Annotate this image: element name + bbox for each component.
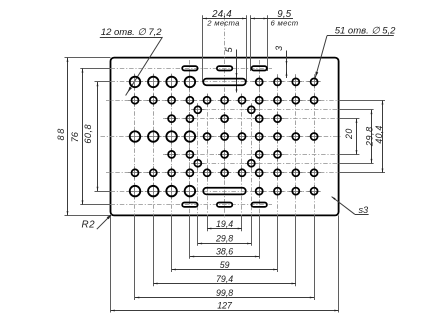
- extension row2.5 right: [339, 109, 374, 111]
- extension left edge down: [110, 215, 112, 312]
- svg-text:20: 20: [344, 128, 354, 140]
- extension row3 right: [339, 118, 360, 120]
- centerline row2: [106, 100, 339, 102]
- hole d5.2 r7c8: [253, 185, 266, 198]
- hole d5.2 r2c6: [218, 94, 231, 107]
- hole d5.2 r4c9: [271, 130, 284, 143]
- hole d7.2 r7c1: [127, 183, 144, 200]
- dim 9,5 line: [251, 18, 293, 20]
- short slot 9.5x3 bottom c8: [252, 203, 267, 207]
- hole d7.2 r7c2: [145, 183, 162, 200]
- centerline bottom slot row: [111, 204, 273, 206]
- extension col c10 below: [295, 215, 297, 286]
- hole d5.2 r6c9: [271, 166, 284, 179]
- dim 79,4 line: [153, 283, 295, 285]
- svg-text:29,8: 29,8: [364, 126, 374, 147]
- svg-text:59: 59: [220, 260, 230, 270]
- hole d5.2 r7c10: [289, 185, 302, 198]
- label 12 holes leader: [126, 37, 163, 96]
- dim 127 line: [111, 310, 339, 312]
- svg-text:60,8: 60,8: [83, 124, 93, 144]
- hole d5.2 r3c3: [165, 112, 178, 125]
- hole d5.2 r1c8: [253, 75, 266, 88]
- hole d5.2 r2c3: [165, 94, 178, 107]
- hole d5.2 r1c11: [308, 75, 321, 88]
- extension bottom slot row left: [80, 204, 110, 206]
- plate outline 127x88 R2: [111, 58, 339, 216]
- hole d5.2 r2.5 left: [191, 103, 204, 116]
- extension col c5 below: [207, 215, 209, 231]
- hole d5.2 r5c4: [183, 148, 196, 161]
- svg-text:40,4: 40,4: [374, 125, 384, 143]
- hole d5.2 r7c11: [308, 185, 321, 198]
- hole d7.2 r1c2: [145, 74, 162, 91]
- svg-text:76: 76: [70, 131, 80, 142]
- dim 99,8 line: [135, 297, 314, 299]
- hole d5.2 r5.5 right: [245, 157, 258, 170]
- hole d5.2 r6c10: [289, 166, 302, 179]
- centerline column c2: [153, 74, 155, 215]
- centerline column c8: [259, 60, 261, 215]
- dim 88 line: [67, 58, 69, 216]
- hole d7.2 r1c3: [163, 74, 180, 91]
- hole d5.2 r6c2: [147, 166, 160, 179]
- svg-text:99,8: 99,8: [216, 288, 233, 298]
- hole d5.2 r2c11: [308, 94, 321, 107]
- extension row5 right: [339, 154, 360, 156]
- hole d5.2 r3c4: [183, 112, 196, 125]
- hole d5.2 r6c8: [253, 166, 266, 179]
- hole d5.2 r6c1: [128, 166, 141, 179]
- hole d7.2 r4c4: [182, 128, 199, 145]
- extension col c2 below: [153, 215, 155, 286]
- svg-text:6 мест: 6 мест: [271, 18, 299, 27]
- dim 29,8 line: [371, 110, 373, 163]
- hole d7.2 r1c1: [127, 74, 144, 91]
- short slot 9.5x3 bottom c4: [182, 203, 197, 207]
- hole d5.2 r2c9: [271, 94, 284, 107]
- extension right edge down: [338, 215, 340, 312]
- extension slot end x=246.45: [246, 15, 248, 82]
- long slot 24.4x5 row7: [203, 188, 246, 195]
- label 51 holes leader: [315, 36, 327, 78]
- hole d5.2 r6c11: [308, 166, 321, 179]
- hole d5.2 r2c8: [253, 94, 266, 107]
- hole d5.2 r4c11: [308, 130, 321, 143]
- extension row5.5 right: [339, 163, 374, 165]
- hole d5.2 r1c10: [289, 75, 302, 88]
- extension col c8 below: [259, 215, 261, 258]
- short slot 9.5x3 bottom c6: [217, 203, 232, 207]
- hole d7.2 r7c3: [163, 183, 180, 200]
- hole d5.2 r2c5: [201, 94, 214, 107]
- hole d5.2 r2c10: [289, 94, 302, 107]
- hole d5.2 r4c5: [201, 130, 214, 143]
- label R2 leader: [97, 214, 112, 229]
- extension slot end x=267.72: [267, 15, 269, 71]
- hole d5.2 r1c9: [271, 75, 284, 88]
- hole d5.2 r3c6: [218, 112, 231, 125]
- hole d5.2 r6c3: [165, 166, 178, 179]
- hole d5.2 r5c9: [271, 148, 284, 161]
- centerline column c4: [189, 60, 191, 215]
- extension row2 right: [339, 100, 385, 102]
- short slot 9.5x3 top c6: [217, 66, 232, 70]
- svg-text:R2: R2: [82, 219, 96, 230]
- centerline column c6 main axis: [224, 13, 226, 218]
- hole d5.2 r2.5 right: [245, 103, 258, 116]
- dim 29,8 line: [198, 243, 251, 245]
- label s3 leader: [332, 197, 355, 215]
- extension col c1 below: [134, 215, 136, 300]
- centerline column col x=-14.9: [197, 104, 199, 216]
- centerline column c7: [241, 94, 243, 216]
- hole d5.2 r3c9: [271, 112, 284, 125]
- centerline row4 mid: [101, 136, 343, 138]
- label 51 holes shelf: [327, 35, 394, 37]
- svg-text:79,4: 79,4: [216, 274, 233, 284]
- centerline row6: [106, 172, 339, 174]
- centerline column c5: [207, 94, 209, 216]
- hole d5.2 r6c6: [218, 166, 231, 179]
- extension col c4 below: [189, 215, 191, 258]
- extension row6 right: [339, 172, 385, 174]
- extension col +14.9 below: [251, 215, 253, 245]
- hole d5.2 r5.5 left: [191, 157, 204, 170]
- svg-text:s3: s3: [358, 205, 369, 215]
- hole d5.2 r6c7: [235, 166, 248, 179]
- extension col -14.9 below: [197, 215, 199, 245]
- hole d5.2 r4c6: [218, 130, 231, 143]
- hole d5.2 r6c4: [183, 166, 196, 179]
- hole d7.2 r4c1: [127, 128, 144, 145]
- hole d5.2 r5c3: [165, 148, 178, 161]
- hole d5.2 r2c7: [235, 94, 248, 107]
- svg-text:29,8: 29,8: [215, 234, 233, 244]
- centerline row7: [111, 191, 321, 193]
- svg-text:127: 127: [217, 300, 233, 310]
- svg-text:38,6: 38,6: [216, 247, 233, 257]
- extension col c3 below: [171, 215, 173, 272]
- hole d5.2 r2c4: [183, 94, 196, 107]
- dim 76 line: [82, 68, 84, 204]
- extension slot end x=202.65: [202, 15, 204, 82]
- centerline column c10: [295, 74, 297, 215]
- dim 20 line: [356, 119, 358, 155]
- dim 38,6 line: [190, 256, 259, 258]
- hole d5.2 r4c7: [235, 130, 248, 143]
- hole d5.2 r3c8: [253, 112, 266, 125]
- dim 60,8 line: [97, 82, 99, 191]
- svg-text:12 отв. ∅ 7,2: 12 отв. ∅ 7,2: [101, 27, 162, 38]
- hole d7.2 r7c4: [182, 183, 199, 200]
- short slot 9.5x3 top c8: [252, 66, 267, 70]
- short slot 9.5x3 top c4: [182, 66, 197, 70]
- hole d5.2 r4c8: [253, 130, 266, 143]
- centerline row1: [111, 81, 321, 83]
- centerline column c1: [134, 74, 136, 215]
- centerline row3: [163, 118, 339, 120]
- svg-text:2 места: 2 места: [206, 18, 240, 27]
- centerline row5.5: [193, 163, 339, 165]
- dim 24,4 line: [203, 18, 247, 20]
- centerline column col x=+14.9: [251, 104, 253, 216]
- centerline top slot row: [111, 68, 273, 70]
- hole d7.2 r4c2: [145, 128, 162, 145]
- svg-text:88: 88: [56, 127, 66, 140]
- svg-text:19,4: 19,4: [216, 219, 233, 229]
- centerline row5: [163, 154, 339, 156]
- hole d5.2 r4c10: [289, 130, 302, 143]
- extension row1 left: [95, 81, 111, 83]
- hole d5.2 r5c6: [218, 148, 231, 161]
- centerline column c9: [277, 74, 279, 215]
- extension col c11 below: [314, 215, 316, 300]
- centerline column c3: [171, 74, 173, 215]
- hole d5.2 r7c9: [271, 185, 284, 198]
- hole d5.2 r6c5: [201, 166, 214, 179]
- centerline row2.5: [193, 109, 339, 111]
- extension col c7 below: [241, 215, 243, 231]
- extension col c9 below: [277, 215, 279, 272]
- extension row7 left: [95, 191, 111, 193]
- hole d5.2 r5c8: [253, 148, 266, 161]
- label 12 holes shelf: [100, 37, 163, 39]
- hole d7.2 r1c4: [182, 74, 199, 91]
- dim 19,4 line: [207, 228, 242, 230]
- long slot 24.4x5 row1: [203, 79, 246, 86]
- hole d5.2 r2c2: [147, 94, 160, 107]
- dim 3 line: [286, 51, 288, 79]
- dim 59 line: [172, 269, 278, 271]
- centerline column c11: [314, 74, 316, 215]
- extension top edge left: [65, 57, 111, 59]
- extension slot end x=250.67: [250, 15, 252, 71]
- svg-text:3: 3: [274, 46, 284, 51]
- svg-text:51 отв. ∅ 5,2: 51 отв. ∅ 5,2: [335, 25, 396, 36]
- dim 40,4 line: [382, 100, 384, 173]
- dim 5 line: [236, 50, 238, 93]
- extension bottom edge left: [65, 215, 111, 217]
- hole d7.2 r4c3: [163, 128, 180, 145]
- hole d5.2 r2c1: [128, 94, 141, 107]
- extension top slot row left: [80, 68, 110, 70]
